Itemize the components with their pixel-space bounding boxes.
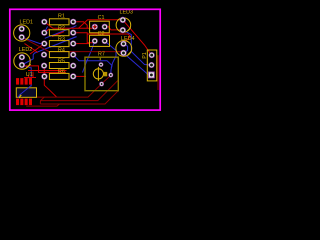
LED3 flat chord bbox=[127, 28, 130, 31]
wire blue diagonal across R2 body bbox=[45, 26, 77, 39]
labels bbox=[19, 10, 148, 79]
SMD pads of U1 (red) bbox=[16, 78, 32, 105]
svg-text:LED2: LED2 bbox=[19, 47, 33, 53]
wire horizontal y70.5 (red) bbox=[28, 70, 67, 72]
IC U1 pin1 mark bbox=[19, 95, 21, 98]
wire R2 left pad stub (red) bbox=[44, 29, 49, 33]
svg-text:R6: R6 bbox=[58, 69, 65, 75]
pad R3.2 bbox=[70, 41, 76, 47]
wire R3 right pad toward C2 (red) bbox=[76, 43, 89, 45]
via B bbox=[99, 62, 104, 67]
pad C2.1 bbox=[92, 38, 98, 44]
svg-text:R2: R2 bbox=[58, 26, 65, 32]
board outline bbox=[10, 9, 160, 110]
wire U1 top pads horizontal (red) bbox=[24, 77, 36, 79]
connector P1 body bbox=[147, 50, 157, 81]
pad P1.3 square bbox=[148, 72, 155, 79]
wire LED3 bottom pad to P1 pin2 (blue) bbox=[123, 30, 152, 65]
wire bottom horizontal L1 (dark red) bbox=[22, 75, 111, 97]
pad R3.1 bbox=[41, 41, 47, 47]
pad C2.2 bbox=[102, 38, 108, 44]
pad R1.1 bbox=[41, 19, 47, 25]
svg-text:C1: C1 bbox=[98, 15, 105, 21]
wire LED1 bottom pad to R3 left pad (blue) bbox=[22, 37, 45, 43]
resistor R1 body bbox=[49, 19, 69, 25]
via A bbox=[108, 73, 113, 78]
U1 pad 4 bbox=[29, 99, 32, 106]
wire red diagonal across R2 body bbox=[52, 32, 64, 37]
pad P1.1 bbox=[149, 52, 155, 58]
resistor R3 body bbox=[49, 41, 69, 47]
wire C2 left pad down left (blue) bbox=[83, 41, 95, 73]
LED1 circle bbox=[14, 25, 30, 41]
wire C1 right pad to LED3 bottom pad (red) bbox=[105, 27, 123, 30]
wire LED1 bottom pad long net to right edge (dark red) bbox=[22, 37, 124, 51]
pad P1.2 bbox=[149, 62, 155, 68]
pad R5.1 bbox=[41, 63, 47, 69]
U1 pad 8 bbox=[16, 78, 19, 85]
svg-text:R1: R1 bbox=[58, 14, 65, 20]
svg-text:P1: P1 bbox=[142, 52, 148, 59]
wire blue stub at R2 left pad bbox=[44, 27, 47, 33]
wire R1 right pad jog down (red) bbox=[76, 22, 87, 29]
wire LED2 bottom pad down to U1 (blue) bbox=[22, 65, 31, 87]
wire R2 right pad to C2 left pad (red) bbox=[76, 33, 95, 43]
U1 pad 1 bbox=[16, 99, 19, 106]
wire branch up to LED3 top pad (red) bbox=[79, 20, 123, 29]
pad R4.2 bbox=[70, 52, 76, 58]
capacitor C2 body bbox=[90, 35, 110, 46]
svg-text:LED1: LED1 bbox=[20, 20, 34, 26]
resistor R6 body bbox=[49, 73, 69, 79]
U1 pad 2 bbox=[20, 99, 23, 106]
svg-text:U1: U1 bbox=[26, 72, 33, 78]
wire LED4 bottom pad to P1 pin3 (blue) bbox=[124, 53, 149, 75]
IC U1 body bbox=[16, 88, 36, 98]
resistor R5 body bbox=[49, 63, 69, 69]
U1 pad 5 bbox=[29, 78, 32, 85]
wire R4 right pad to via A (blue) bbox=[73, 55, 112, 75]
transistor Q1 circle bbox=[93, 69, 103, 79]
R7 pin stub bbox=[99, 57, 101, 60]
svg-text:R3: R3 bbox=[58, 36, 65, 42]
wire LED3 top pad diagonal to P1 pin1 (red) bbox=[123, 20, 152, 55]
pad C1.1 bbox=[92, 24, 98, 30]
pad LED4.2 bbox=[120, 50, 126, 56]
wire R3 left pad down-left diagonal (red) bbox=[30, 44, 44, 54]
pad R6.1 bbox=[41, 73, 47, 79]
R7 inner pad blob bbox=[104, 72, 107, 76]
pad R4.1 bbox=[41, 52, 47, 58]
pad R2.2 bbox=[70, 30, 76, 36]
wire vertical to U1 pad stub A (red) bbox=[28, 75, 30, 78]
LED2 circle bbox=[14, 53, 30, 69]
top copper (red) traces bbox=[22, 20, 152, 97]
transistor Q1 line bbox=[97, 67, 99, 81]
pad C1.2 bbox=[102, 24, 108, 30]
silkscreen bbox=[14, 18, 157, 98]
wire bottom horizontal L3 (dark red) bbox=[40, 91, 118, 104]
svg-text:R4: R4 bbox=[58, 47, 65, 53]
LED4 flat chord bbox=[128, 51, 132, 55]
dark red traces bbox=[22, 37, 158, 106]
wire crossing diagonal near LED2 (red) bbox=[25, 44, 39, 53]
resistor R4 body bbox=[49, 52, 69, 58]
svg-text:R7: R7 bbox=[98, 51, 105, 57]
LED4 circle bbox=[116, 41, 132, 57]
U1 pad 7 bbox=[20, 78, 23, 85]
wire R5 left pad to R6 left pad vertical (red) bbox=[44, 66, 56, 97]
wire L2 left elbow (dark red) bbox=[40, 97, 44, 104]
LED3 circle bbox=[116, 18, 131, 33]
resistor R2 body bbox=[49, 30, 69, 36]
pad LED1.1 bbox=[19, 26, 25, 32]
LED1 flat chord bbox=[26, 37, 30, 41]
pad LED2.2 bbox=[19, 62, 25, 68]
wire LED4 pads bridge (blue) bbox=[124, 44, 128, 53]
wire horizontal y34 to LED4 top pad (red) bbox=[87, 34, 130, 44]
pad LED3.1 bbox=[120, 17, 126, 23]
pad LED1.2 bbox=[19, 34, 25, 40]
wire R1 left pad diagonal to horizontal net (red) bbox=[44, 22, 53, 29]
pad R2.1 bbox=[41, 30, 47, 36]
pad R5.2 bbox=[70, 63, 76, 69]
pad LED4.1 bbox=[120, 41, 126, 47]
svg-text:LED3: LED3 bbox=[120, 10, 134, 16]
wire C2 right pad to via A (blue) bbox=[105, 41, 116, 68]
pad R6.2 bbox=[70, 73, 76, 79]
pad LED3.2 bbox=[120, 27, 126, 33]
U1 pad 3 bbox=[25, 99, 28, 106]
via C bbox=[99, 82, 104, 87]
wire vertical to U1 pad stub B (red) bbox=[32, 72, 34, 78]
resistor R7 box (olive) bbox=[85, 57, 118, 90]
wire horizontal red bus y28.3 bbox=[53, 27, 95, 29]
svg-text:C2: C2 bbox=[98, 31, 105, 37]
wire right edge vertical (dark red) bbox=[157, 55, 159, 90]
wire bottom horizontal L2 (dark red) bbox=[41, 80, 119, 100]
wire blue diagonal across R3 body bbox=[45, 37, 77, 50]
capacitor C1 body bbox=[90, 21, 110, 33]
through-hole pads bbox=[19, 17, 155, 87]
IC U1 blue diagonal bbox=[18, 86, 31, 98]
pad LED2.1 bbox=[19, 54, 25, 60]
LED2 flat chord bbox=[26, 64, 30, 68]
U1 pad 6 bbox=[25, 78, 28, 85]
wire LED2 top pad long diagonal (blue) bbox=[22, 37, 77, 65]
wire R6 right pad right (red) bbox=[76, 75, 86, 77]
wire bottom horizontal L4 (dark red) bbox=[26, 104, 59, 106]
wire LED2 bottom pad right (red) bbox=[22, 66, 66, 73]
svg-text:R5: R5 bbox=[58, 58, 65, 64]
bottom copper (blue) traces bbox=[22, 26, 152, 87]
pad R1.2 bbox=[70, 19, 76, 25]
